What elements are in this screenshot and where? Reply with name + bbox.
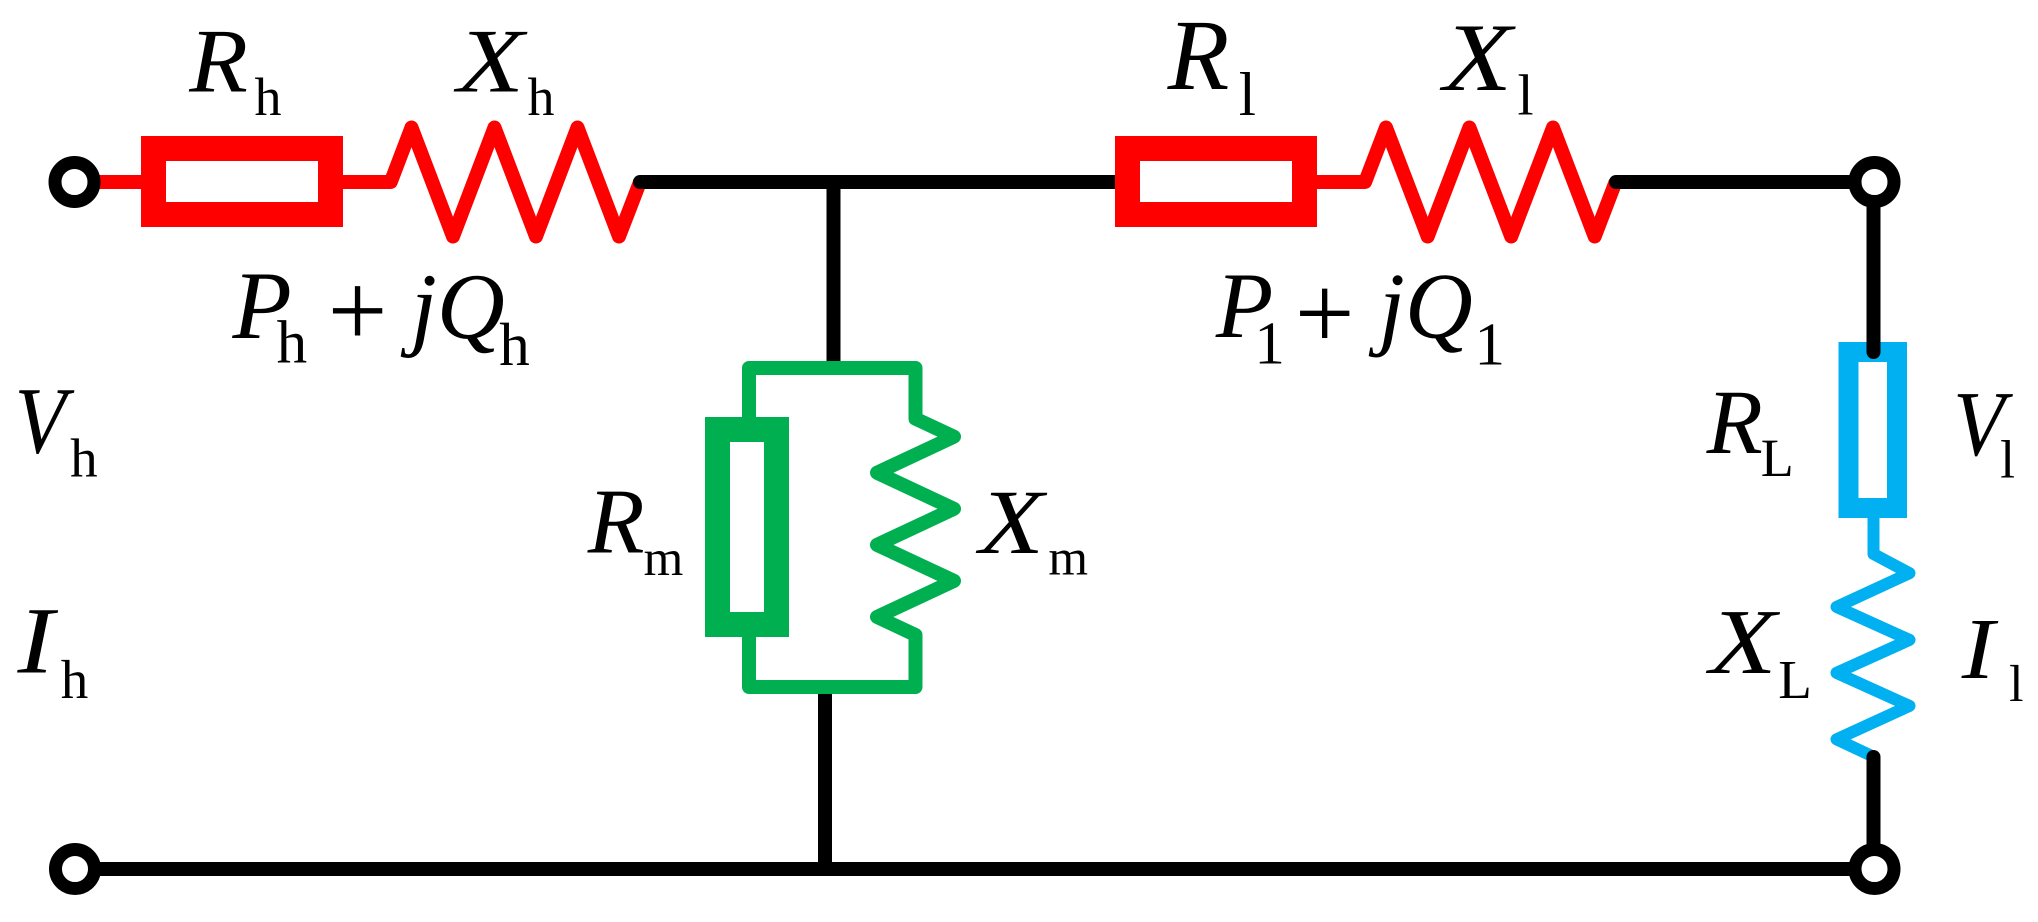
label X_L [1705,591,1781,694]
svg-text:R: R [1167,0,1230,111]
svg-text:I: I [1961,600,1999,697]
svg-text:l: l [1239,61,1256,129]
wire green parallel loop and inductor X_m zigzag [749,368,954,687]
wire top middle black [640,175,1120,189]
svg-text:+: + [1288,255,1360,372]
svg-text:X: X [975,471,1049,573]
label I_h [16,588,59,694]
svg-text:R: R [1706,371,1763,473]
svg-text:h: h [70,428,98,489]
svg-text:X: X [1705,591,1781,694]
wire red lead and inductor X_h zigzag [336,128,640,237]
svg-text:h: h [277,310,308,377]
svg-text:L: L [1761,428,1794,488]
resistor R_l box [1128,149,1305,215]
terminal top-left [55,163,94,202]
svg-text:l: l [2009,656,2023,713]
svg-text:1: 1 [1254,311,1285,378]
resistor R_m box [718,430,777,625]
wire black vertical to bottom rail [818,687,832,863]
label X_l [1439,4,1517,111]
label X_m [975,471,1049,573]
label V_h [15,367,76,473]
resistor R_L box [1849,352,1898,508]
svg-text:X: X [1439,4,1517,111]
wire right vertical bottom [1867,757,1881,845]
svg-text:l: l [1518,63,1534,128]
svg-text:h: h [528,67,555,127]
svg-text:+: + [321,252,393,369]
svg-text:I: I [16,588,59,694]
svg-text:h: h [499,312,530,379]
label R_h [188,11,248,112]
label I_l [1961,600,1999,697]
resistor R_h box [154,149,331,215]
svg-text:X: X [452,10,528,111]
wire red lead and inductor X_l zigzag [1313,128,1616,237]
wire top right black [1616,175,1875,189]
svg-text:V: V [15,367,76,473]
svg-text:1: 1 [1475,312,1506,379]
wire top-left red lead [94,175,150,189]
wire junction vertical to magnetizing branch [827,182,841,368]
svg-text:R: R [587,471,645,574]
svg-text:m: m [1048,531,1088,587]
wire blue lead and inductor X_L zigzag [1837,512,1910,757]
svg-text:R: R [188,11,248,112]
wire right vertical top [1867,200,1881,352]
terminal bottom-left [56,850,95,889]
svg-text:h: h [61,649,88,710]
label X_h [452,10,528,111]
svg-text:l: l [2000,430,2015,490]
terminal bottom-right [1855,850,1894,889]
svg-text:L: L [1778,649,1812,710]
svg-text:m: m [644,531,684,587]
svg-text:h: h [255,67,282,127]
wire bottom rail [96,862,1875,876]
svg-text:jQ: jQ [400,255,505,359]
svg-text:jQ: jQ [1368,255,1473,359]
label V_l [1953,373,2013,476]
terminal top-right [1855,163,1894,202]
